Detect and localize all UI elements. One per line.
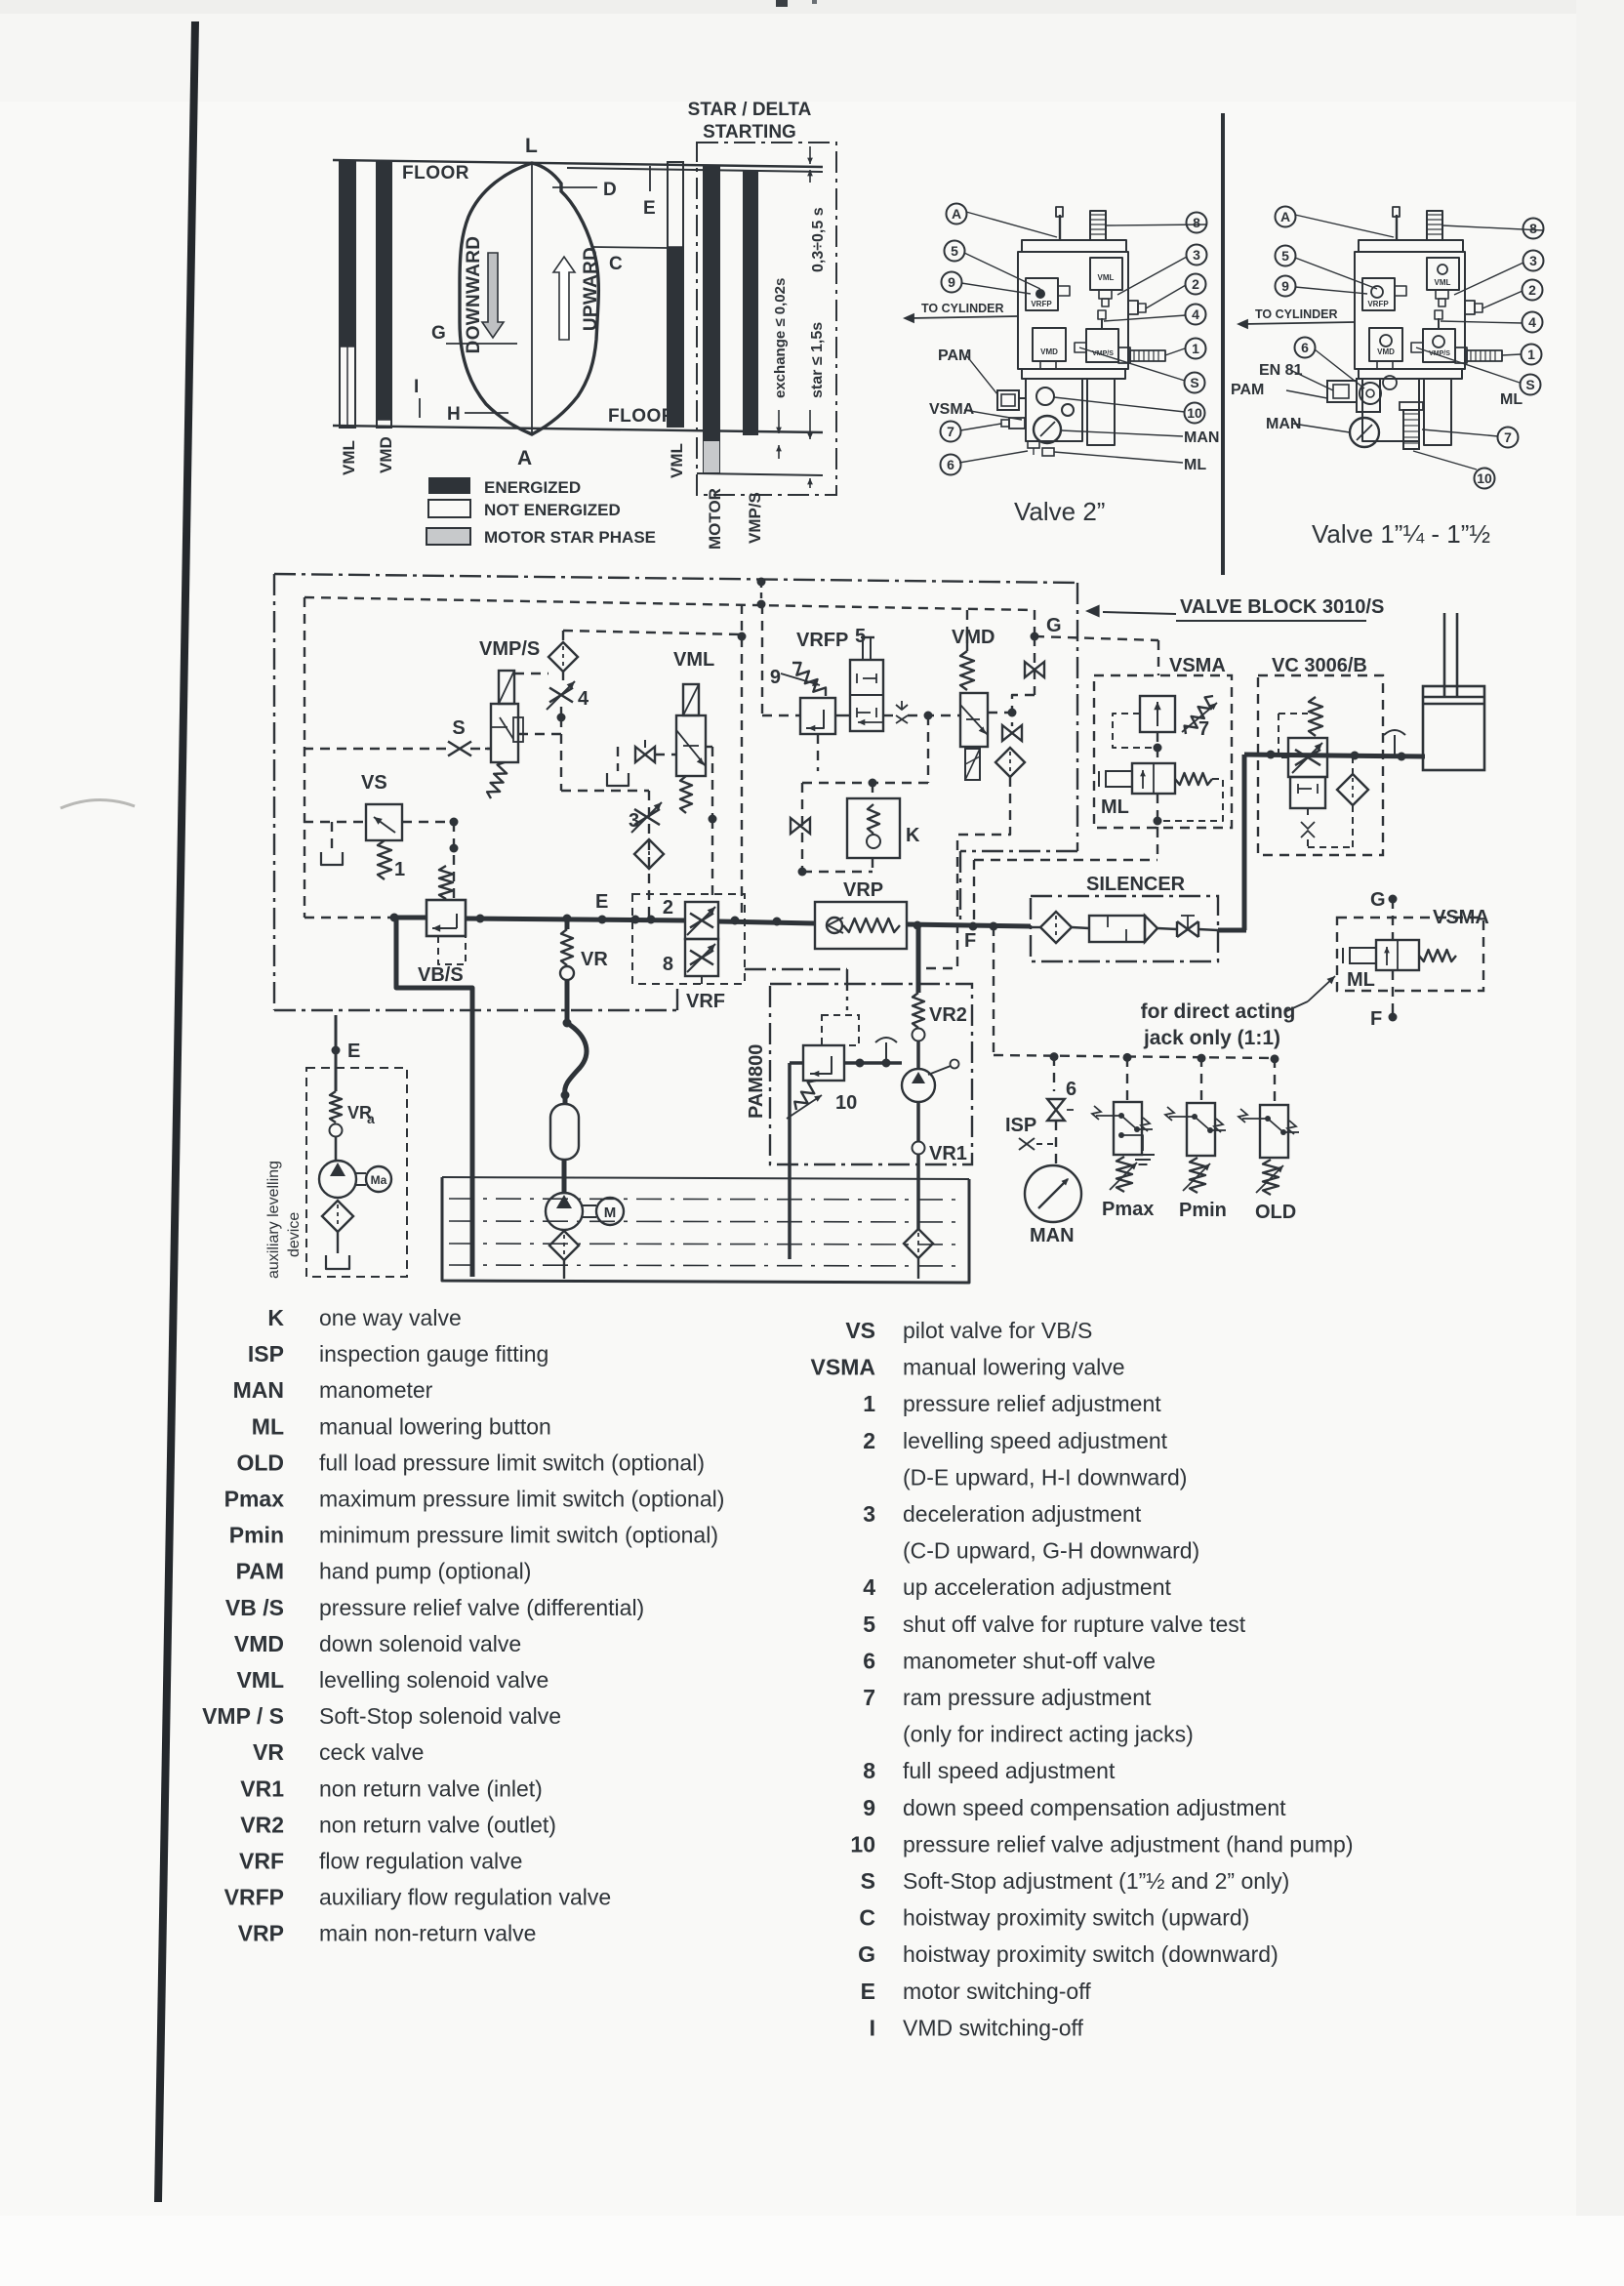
svg-text:VRF: VRF [239, 1849, 284, 1874]
svg-text:1: 1 [1192, 341, 1199, 356]
svg-text:ML: ML [1500, 391, 1522, 408]
svg-text:9: 9 [863, 1795, 875, 1820]
wire VS left [304, 821, 366, 823]
travel lens curve [460, 163, 598, 434]
svg-text:VB/S: VB/S [418, 964, 464, 986]
throttle vc drain [1307, 808, 1309, 818]
svg-text:non return valve (outlet): non return valve (outlet) [319, 1812, 556, 1837]
svg-text:4: 4 [863, 1574, 875, 1600]
svg-text:OLD: OLD [236, 1449, 284, 1475]
globe valve [1177, 921, 1198, 937]
silencer filter [1040, 912, 1072, 943]
svg-text:VMP/S: VMP/S [1429, 350, 1450, 357]
svg-text:VML: VML [673, 649, 714, 671]
throttle 4 [549, 688, 573, 703]
svg-text:10: 10 [1187, 405, 1202, 421]
svg-text:VSMA: VSMA [811, 1355, 875, 1380]
svg-text:K: K [906, 825, 920, 846]
svg-text:10: 10 [1477, 470, 1492, 486]
VMD energized bar [377, 161, 391, 428]
VMD cartridge [1369, 328, 1402, 361]
svg-text:VML: VML [340, 440, 358, 475]
svg-text:VML: VML [1435, 278, 1451, 287]
wire vmp/s right pilot [518, 733, 561, 735]
svg-text:Pmin: Pmin [1179, 1200, 1227, 1221]
svg-text:F: F [964, 930, 976, 952]
svg-text:VML: VML [236, 1667, 284, 1693]
svg-text:D: D [603, 180, 617, 200]
svg-text:ML: ML [1184, 457, 1206, 473]
VSMA ML actuator [1132, 763, 1175, 794]
wire S pilot line [304, 748, 449, 750]
check throttle [901, 701, 903, 709]
svg-text:5: 5 [863, 1612, 875, 1637]
svg-text:8: 8 [1193, 215, 1200, 230]
svg-text:VB /S: VB /S [225, 1595, 284, 1620]
svg-text:VRP: VRP [238, 1921, 284, 1946]
svg-text:VR: VR [253, 1739, 284, 1765]
wire second top line [567, 168, 823, 172]
pump with motor M [546, 1193, 583, 1230]
svg-text:VR: VR [581, 949, 608, 970]
dim arrow exchange [778, 410, 780, 433]
svg-text:manometer shut-off valve: manometer shut-off valve [903, 1648, 1156, 1673]
svg-text:G: G [858, 1941, 875, 1967]
svg-text:ML: ML [1347, 969, 1375, 991]
node C tick [592, 247, 668, 248]
callout 8 [1523, 219, 1544, 239]
svg-text:I: I [414, 377, 419, 397]
svg-text:UPWARD: UPWARD [581, 247, 601, 331]
legend motor star phase [426, 528, 470, 545]
tank VS drain [321, 852, 343, 865]
page edge bar [154, 21, 199, 2202]
wire lens center line [531, 162, 533, 435]
svg-text:Soft-Stop adjustment (1”½ and: Soft-Stop adjustment (1”½ and 2” only) [903, 1868, 1289, 1894]
svg-text:4: 4 [1192, 306, 1199, 322]
svg-text:VR1: VR1 [240, 1776, 284, 1801]
svg-text:Pmin: Pmin [229, 1523, 284, 1548]
pressure switch Pmax [1126, 1057, 1128, 1102]
svg-text:7: 7 [1198, 718, 1209, 740]
callout 9 [1276, 276, 1296, 297]
svg-text:VMD: VMD [234, 1631, 284, 1656]
svg-text:VC 3006/B: VC 3006/B [1272, 655, 1367, 676]
callout 10 [1475, 469, 1495, 489]
valve block outer border (dash-dot) [274, 574, 1077, 583]
svg-text:VRFP: VRFP [1031, 300, 1052, 308]
svg-text:C: C [609, 254, 623, 274]
node D tick [552, 186, 597, 188]
svg-text:Valve 2”: Valve 2” [1014, 497, 1105, 526]
svg-text:9: 9 [770, 667, 781, 688]
muffler [1089, 916, 1145, 942]
svg-text:VRF: VRF [686, 991, 725, 1012]
auxiliary levelling device [332, 1046, 341, 1055]
svg-text:VMD switching-off: VMD switching-off [903, 2015, 1084, 2040]
wire VRFP to 5 [835, 714, 850, 716]
EN81 block [1327, 381, 1357, 402]
svg-text:VR2: VR2 [929, 1004, 967, 1026]
bolt 1 [1455, 347, 1467, 363]
svg-text:ISP: ISP [1005, 1115, 1036, 1136]
svg-text:auxiliary levelling: auxiliary levelling [265, 1161, 282, 1279]
svg-text:ENERGIZED: ENERGIZED [484, 478, 581, 497]
svg-text:M: M [604, 1204, 617, 1221]
svg-text:VML: VML [668, 443, 686, 478]
svg-text:Soft-Stop solenoid valve: Soft-Stop solenoid valve [319, 1703, 561, 1729]
svg-text:pressure relief adjustment: pressure relief adjustment [903, 1391, 1161, 1416]
svg-text:VS: VS [845, 1318, 875, 1343]
svg-text:pressure relief valve adjustme: pressure relief valve adjustment (hand p… [903, 1831, 1354, 1857]
svg-text:MAN: MAN [1030, 1225, 1075, 1246]
svg-text:a: a [367, 1111, 375, 1126]
svg-text:levelling solenoid valve: levelling solenoid valve [319, 1667, 548, 1693]
svg-text:(C-D upward, G-H downward): (C-D upward, G-H downward) [903, 1538, 1199, 1564]
svg-text:5: 5 [1281, 248, 1289, 264]
svg-text:full speed adjustment: full speed adjustment [903, 1758, 1116, 1783]
filter diamond VMD [995, 748, 1025, 777]
callout 6 [941, 455, 961, 475]
svg-text:VMP/S: VMP/S [746, 492, 764, 544]
svg-text:7: 7 [947, 424, 954, 439]
one way valve K [802, 782, 928, 784]
svg-text:ISP: ISP [248, 1341, 284, 1367]
svg-text:9: 9 [1281, 278, 1289, 294]
svg-text:device: device [286, 1212, 303, 1257]
svg-text:VMD: VMD [1040, 347, 1058, 356]
svg-text:DOWNWARD: DOWNWARD [464, 236, 484, 354]
svg-text:auxiliary flow regulation valv: auxiliary flow regulation valve [319, 1885, 611, 1910]
svg-text:exchange ≤ 0,02s: exchange ≤ 0,02s [772, 278, 789, 398]
stub 7 [1009, 418, 1025, 429]
svg-text:Pmax: Pmax [224, 1487, 285, 1512]
svg-text:non return valve (inlet): non return valve (inlet) [319, 1776, 543, 1801]
right VML bar [668, 162, 683, 427]
legend [202, 1305, 1353, 2040]
svg-text:pilot valve for VB/S: pilot valve for VB/S [903, 1318, 1092, 1343]
svg-text:Valve 1”¼ - 1”½: Valve 1”¼ - 1”½ [1312, 519, 1490, 549]
wire diamond riser [562, 631, 564, 643]
node G tick [446, 343, 517, 345]
node G [1031, 633, 1039, 641]
svg-text:2: 2 [1528, 282, 1536, 298]
svg-text:6: 6 [863, 1648, 875, 1673]
pressure switch OLD [1274, 1058, 1276, 1105]
knob small [1383, 376, 1397, 389]
relief valve VB/S [426, 900, 466, 936]
ML screws [1028, 441, 1039, 448]
svg-text:EN 81: EN 81 [1259, 362, 1303, 379]
timing diagram [333, 100, 836, 550]
svg-text:0,3÷0,5 s: 0,3÷0,5 s [810, 207, 827, 272]
valve body [1022, 240, 1126, 252]
valve 1-1/4 drawing [1231, 207, 1544, 550]
svg-text:4: 4 [1528, 314, 1536, 330]
pin A [1396, 215, 1398, 240]
svg-text:7: 7 [1504, 429, 1512, 445]
legend energized [428, 477, 470, 494]
svg-text:VMD: VMD [952, 627, 995, 648]
svg-text:VSMA: VSMA [929, 401, 975, 418]
svg-text:L: L [525, 135, 538, 157]
hand pump [902, 1069, 935, 1102]
svg-text:inspection gauge fitting: inspection gauge fitting [319, 1341, 548, 1367]
svg-text:VR2: VR2 [240, 1812, 284, 1837]
oil tank [442, 1177, 969, 1283]
MOTOR bar [704, 167, 719, 472]
svg-text:2: 2 [863, 1428, 875, 1453]
svg-text:up acceleration adjustment: up acceleration adjustment [903, 1574, 1171, 1600]
svg-text:maximum pressure limit switch: maximum pressure limit switch (optional) [319, 1487, 724, 1512]
VMP/S cartridge [1086, 329, 1118, 362]
svg-text:8: 8 [1529, 221, 1537, 236]
svg-text:5: 5 [951, 243, 958, 259]
svg-text:G: G [1370, 889, 1386, 911]
callout 4 [1186, 305, 1206, 325]
svg-text:Ma: Ma [371, 1173, 387, 1187]
callout 3 [1523, 251, 1544, 271]
callout 6 [1295, 338, 1316, 358]
VSMA2 ML actuator [1376, 940, 1419, 970]
svg-text:deceleration adjustment: deceleration adjustment [903, 1501, 1142, 1527]
wire vmp/s left pin [485, 748, 491, 750]
heavy line down from VB/S [396, 918, 472, 1277]
svg-text:3: 3 [1529, 253, 1537, 268]
svg-text:hand pump (optional): hand pump (optional) [319, 1559, 531, 1584]
wire 5 to VMD [883, 714, 895, 716]
knob 10 [1036, 388, 1054, 405]
inner dashed border [304, 597, 1035, 610]
callout 10 [1185, 403, 1205, 424]
relief valve 10 [822, 1015, 859, 1045]
svg-text:manual lowering button: manual lowering button [319, 1413, 551, 1439]
svg-text:flow regulation valve: flow regulation valve [319, 1849, 522, 1874]
callout 2 [1522, 280, 1543, 301]
accumulator [563, 1095, 568, 1104]
silencer box [1031, 896, 1218, 961]
svg-text:one way valve: one way valve [319, 1305, 462, 1330]
svg-text:VALVE BLOCK 3010/S: VALVE BLOCK 3010/S [1180, 596, 1384, 618]
svg-text:VSMA: VSMA [1169, 655, 1226, 676]
svg-text:C: C [859, 1905, 875, 1931]
svg-text:6: 6 [947, 457, 954, 472]
node on inner border [757, 600, 766, 609]
node dots on main line [390, 914, 399, 922]
svg-text:for direct acting: for direct acting [1141, 1000, 1296, 1023]
svg-text:ML: ML [252, 1413, 284, 1439]
throttle below VMD node [1002, 725, 1022, 741]
svg-text:1: 1 [863, 1391, 875, 1416]
drain T [885, 1042, 887, 1061]
VMP/S cartridge [1423, 329, 1455, 362]
callout 5 [945, 241, 965, 262]
svg-text:10: 10 [835, 1092, 857, 1114]
svg-text:shut off valve for rupture val: shut off valve for rupture valve test [903, 1612, 1246, 1637]
VRFP cartridge [1026, 278, 1058, 310]
svg-text:FLOOR: FLOOR [402, 163, 469, 184]
svg-text:VMP / S: VMP / S [202, 1703, 284, 1729]
heavy branch to PAM800 [916, 925, 921, 993]
callout 2 [1186, 274, 1206, 295]
svg-text:manometer: manometer [319, 1377, 433, 1403]
svg-text:A: A [1280, 209, 1290, 225]
svg-text:Pmax: Pmax [1102, 1199, 1154, 1220]
wire switch bus [994, 1055, 1275, 1058]
svg-text:motor switching-off: motor switching-off [903, 1979, 1091, 2004]
upward arrow [553, 257, 575, 340]
svg-text:MOTOR STAR PHASE: MOTOR STAR PHASE [484, 528, 656, 547]
VMP/S bar [744, 172, 757, 434]
PAM fitting [997, 390, 1019, 410]
svg-text:E: E [347, 1041, 360, 1062]
svg-text:hoistway proximity switch (upw: hoistway proximity switch (upward) [903, 1905, 1249, 1931]
manometer MAN [1025, 1165, 1081, 1222]
svg-text:2: 2 [1192, 276, 1199, 292]
svg-text:VRP: VRP [843, 879, 883, 901]
svg-text:MAN: MAN [1266, 416, 1301, 432]
svg-text:S: S [1525, 377, 1534, 392]
svg-text:STARTING: STARTING [703, 122, 796, 143]
svg-text:1: 1 [394, 859, 405, 880]
hand pump PAM800 box [770, 984, 972, 1164]
svg-text:A: A [952, 206, 961, 222]
svg-text:VRFP: VRFP [796, 630, 848, 651]
svg-text:star ≤ 1,5s: star ≤ 1,5s [809, 322, 826, 398]
wire vertical 760 [741, 604, 743, 918]
callout 3 [1187, 245, 1207, 265]
bolt 1 [1118, 347, 1130, 363]
wire to G [1034, 610, 1035, 636]
callout A [947, 204, 967, 225]
svg-text:(D-E upward, H-I downward): (D-E upward, H-I downward) [903, 1464, 1187, 1490]
svg-text:A: A [517, 447, 532, 469]
pin A [1059, 215, 1061, 240]
svg-text:E: E [643, 198, 656, 219]
svg-text:8: 8 [863, 1758, 875, 1783]
svg-text:VR1: VR1 [929, 1143, 967, 1164]
svg-text:full load pressure limit switc: full load pressure limit switch (optiona… [319, 1449, 705, 1475]
svg-text:3: 3 [863, 1501, 875, 1527]
wire VMD right [988, 712, 1010, 714]
VML energized bar [340, 161, 355, 428]
svg-text:10: 10 [850, 1831, 875, 1857]
throttle K branch [791, 818, 810, 834]
svg-text:MOTOR: MOTOR [706, 488, 724, 550]
callout 4 [1522, 312, 1543, 333]
svg-text:jack only (1:1): jack only (1:1) [1143, 1027, 1280, 1049]
star delta dashdot box [697, 143, 836, 495]
svg-text:VS: VS [361, 772, 387, 794]
callout 9 [942, 272, 962, 293]
svg-text:H: H [447, 404, 461, 425]
aux pump [319, 1161, 356, 1198]
manometer MAN [1350, 418, 1379, 447]
wire top floor line [333, 160, 823, 167]
svg-text:manual lowering valve: manual lowering valve [903, 1355, 1125, 1380]
screw 8 [1427, 211, 1442, 240]
svg-text:hoistway proximity switch (dow: hoistway proximity switch (downward) [903, 1941, 1279, 1967]
screw 8 [1090, 211, 1106, 240]
svg-text:minimum pressure limit switch: minimum pressure limit switch (optional) [319, 1523, 718, 1548]
svg-text:PAM: PAM [236, 1559, 284, 1584]
callout 1 [1186, 339, 1206, 359]
svg-text:down solenoid valve: down solenoid valve [319, 1631, 521, 1656]
hose curve [563, 1019, 572, 1028]
svg-text:VMP/S: VMP/S [1092, 350, 1114, 357]
svg-text:1: 1 [1527, 347, 1535, 362]
lower block [1357, 379, 1380, 412]
svg-text:3: 3 [629, 810, 639, 832]
legend not energized [428, 500, 470, 517]
filter diamond above 4 [548, 642, 578, 672]
svg-text:9: 9 [948, 274, 955, 290]
wire VSMA to F [1035, 636, 1158, 640]
suction filter [563, 1230, 565, 1232]
svg-text:6: 6 [1066, 1079, 1076, 1100]
wire vmp/s top to diamond [514, 673, 548, 674]
node 4-branch [557, 714, 566, 722]
svg-text:main non-return valve: main non-return valve [319, 1921, 536, 1946]
svg-text:E: E [595, 891, 608, 913]
main schematic [274, 574, 1384, 1010]
throttle G-branch [1034, 636, 1035, 695]
valve body [1359, 240, 1463, 252]
manometer MAN [1034, 416, 1061, 443]
callout 8 [1187, 213, 1207, 233]
callout 1 [1522, 345, 1542, 365]
ML column [1403, 410, 1419, 449]
svg-text:2: 2 [663, 897, 673, 918]
wire VML right pilot [706, 746, 712, 748]
knob [1062, 404, 1074, 416]
svg-text:K: K [267, 1305, 284, 1330]
cylinder jack [1423, 686, 1484, 770]
wire star bottom line [697, 473, 823, 475]
svg-text:MAN: MAN [1184, 429, 1219, 446]
svg-text:E: E [861, 1979, 875, 2004]
svg-text:4: 4 [578, 688, 589, 710]
svg-text:F: F [1370, 1008, 1382, 1030]
tank VML drain [617, 747, 619, 771]
wire VRFP drain [817, 734, 819, 771]
svg-text:VMD: VMD [1377, 347, 1395, 356]
svg-text:VMP/S: VMP/S [479, 638, 540, 660]
svg-text:levelling speed adjustment: levelling speed adjustment [903, 1428, 1168, 1453]
node I tick [419, 398, 421, 418]
dim arrow delta [809, 146, 811, 164]
svg-text:S: S [452, 717, 465, 739]
callout S [1185, 373, 1205, 393]
svg-text:FLOOR: FLOOR [608, 406, 675, 427]
check valve VR [565, 918, 570, 929]
stub 2 [1128, 301, 1138, 314]
stub 2 [1465, 301, 1475, 314]
VRFP cartridge [1362, 278, 1395, 310]
svg-text:OLD: OLD [1255, 1202, 1296, 1223]
svg-text:PAM800: PAM800 [746, 1044, 767, 1119]
svg-text:G: G [1046, 615, 1062, 636]
callout 5 [1276, 246, 1296, 266]
VML cartridge [1427, 258, 1459, 290]
downward arrow [482, 253, 504, 338]
svg-text:7: 7 [863, 1685, 875, 1710]
check VR2 [913, 993, 924, 1028]
ball fitting [1360, 383, 1381, 404]
svg-text:ML: ML [1101, 796, 1129, 818]
direct acting VSMA [1389, 895, 1398, 904]
callout 7 [941, 422, 961, 442]
